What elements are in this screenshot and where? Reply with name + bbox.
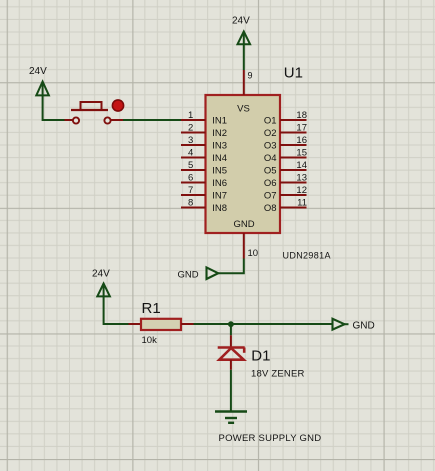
svg-text:15: 15 [296, 148, 307, 159]
zener diode D1 anode pin [230, 360, 232, 370]
svg-text:4: 4 [188, 148, 193, 159]
svg-text:24V: 24V [92, 269, 110, 280]
svg-text:14: 14 [296, 160, 307, 171]
ground label POWER SUPPLY GND [219, 433, 322, 444]
zener diode D1 cathode pin [230, 335, 232, 347]
U1 pin name O1 [264, 116, 277, 127]
svg-text:O1: O1 [264, 116, 277, 127]
U1 pin 3 stub [181, 144, 206, 146]
svg-text:10: 10 [248, 248, 259, 259]
U1 pin 13 stub [280, 182, 307, 184]
U1 pin name GND [233, 219, 254, 230]
U1 pin number 14 [296, 160, 307, 171]
op IC U1 body [206, 95, 281, 233]
svg-text:GND: GND [353, 321, 375, 332]
svg-text:O4: O4 [264, 153, 277, 164]
power terminal +24V bottom-left arrow symbol [97, 284, 110, 297]
wire from U1 pin 10 down and left to GND terminal [218, 259, 244, 274]
U1 pin number 18 [296, 110, 307, 121]
svg-text:24V: 24V [29, 66, 47, 77]
U1 pin name IN7 [212, 191, 227, 202]
svg-text:IN5: IN5 [212, 166, 227, 177]
svg-text:IN3: IN3 [212, 141, 227, 152]
U1 pin number 16 [296, 135, 307, 146]
D1 reference designator [251, 348, 270, 365]
svg-text:UDN2981A: UDN2981A [283, 251, 331, 261]
svg-text:18V ZENER: 18V ZENER [251, 369, 305, 380]
zener diode D1 cathode bar [218, 348, 245, 353]
svg-text:IN1: IN1 [212, 116, 227, 127]
ground terminal GND (near pin 10) label [178, 270, 199, 281]
U1 pin number 7 [188, 185, 193, 196]
U1 pin number 11 [297, 198, 307, 209]
power terminal +24V top-left arrow symbol [36, 82, 49, 96]
svg-text:5: 5 [188, 160, 193, 171]
svg-text:11: 11 [297, 198, 307, 209]
junction node at R1 / D1 [228, 321, 234, 327]
ground terminal GND (right) label [353, 321, 375, 332]
svg-text:18: 18 [296, 110, 307, 121]
wire from R1 to GND terminal (right) [194, 323, 333, 325]
U1 pin name IN1 [212, 116, 227, 127]
svg-text:U1: U1 [284, 64, 303, 81]
svg-text:POWER SUPPLY GND: POWER SUPPLY GND [219, 433, 322, 444]
U1 pin name IN5 [212, 166, 227, 177]
U1 pin 12 stub [280, 194, 307, 196]
U1 pin name O2 [264, 128, 277, 139]
power terminal +24V top arrow symbol [238, 32, 251, 45]
wire from switch to U1 pin 1 [123, 119, 181, 121]
resistor R1 value label 10k [142, 335, 158, 346]
U1 pin name O7 [264, 191, 277, 202]
D1 value label 18V ZENER [251, 369, 305, 380]
U1 pin 15 stub [280, 157, 307, 159]
U1 pin 9 stub (VS, top) [243, 70, 245, 95]
U1 pin 2 stub [181, 132, 206, 134]
U1 pin name IN2 [212, 128, 227, 139]
U1 pin number 3 [188, 135, 193, 146]
svg-text:16: 16 [296, 135, 307, 146]
U1 pin name O8 [264, 203, 277, 214]
U1 pin 5 stub [181, 169, 206, 171]
U1 pin 11 stub [280, 207, 307, 209]
svg-text:O5: O5 [264, 166, 277, 177]
svg-text:9: 9 [248, 71, 253, 81]
switch SW1 left terminal circle [73, 117, 79, 123]
U1 pin number 2 [188, 123, 193, 134]
U1 pin 6 stub [181, 182, 206, 184]
U1 pin number 10 [248, 248, 259, 259]
switch SW1 right pin [111, 119, 124, 121]
svg-text:IN2: IN2 [212, 128, 227, 139]
power terminal +24V top label [232, 16, 250, 27]
svg-text:1: 1 [188, 110, 193, 121]
power terminal +24V bottom-left label [92, 269, 110, 280]
U1 pin 4 stub [181, 157, 206, 159]
U1 pin number 5 [188, 160, 193, 171]
svg-text:O3: O3 [264, 141, 277, 152]
U1 pin name O5 [264, 166, 277, 177]
ground symbol POWER SUPPLY GND [215, 412, 247, 423]
U1 pin name IN8 [212, 203, 227, 214]
svg-text:O7: O7 [264, 191, 277, 202]
U1 pin 14 stub [280, 169, 307, 171]
svg-text:GND: GND [178, 270, 199, 281]
wire from D1 anode down to power supply ground [230, 370, 232, 412]
svg-text:6: 6 [188, 173, 193, 184]
svg-text:IN6: IN6 [212, 178, 227, 189]
U1 pin 10 stub (GND, bottom) [243, 233, 245, 259]
switch SW1 button cap [81, 102, 102, 110]
U1 pin number 4 [188, 148, 193, 159]
ground terminal GND (near pin 10) arrow symbol [207, 267, 219, 279]
svg-text:8: 8 [188, 198, 193, 209]
U1 pin 7 stub [181, 194, 206, 196]
switch SW1 right terminal circle [104, 117, 110, 123]
resistor R1 right pin [181, 323, 194, 325]
U1 pin name IN6 [212, 178, 227, 189]
svg-text:IN7: IN7 [212, 191, 227, 202]
svg-text:O8: O8 [264, 203, 277, 214]
U1 pin name O3 [264, 141, 277, 152]
wire from junction down to D1 [230, 324, 232, 335]
svg-text:10k: 10k [142, 335, 158, 346]
svg-text:IN4: IN4 [212, 153, 227, 164]
U1 pin name VS [237, 104, 250, 115]
U1 pin 8 stub [181, 207, 206, 209]
ground terminal GND (right) arrow symbol [333, 319, 349, 330]
U1 pin number 13 [296, 173, 307, 184]
U1 pin 1 stub [181, 119, 206, 121]
svg-text:O2: O2 [264, 128, 277, 139]
wire from bottom 24V terminal down and right to R1 [104, 296, 129, 324]
svg-text:D1: D1 [251, 348, 270, 365]
U1 pin name IN3 [212, 141, 227, 152]
U1 pin 17 stub [280, 132, 307, 134]
U1 pin number 6 [188, 173, 193, 184]
resistor R1 reference designator [142, 300, 161, 317]
resistor R1 body [141, 319, 181, 330]
U1 pin number 17 [296, 123, 307, 134]
wire from 24V terminal down and right to switch [43, 95, 65, 120]
svg-text:IN8: IN8 [212, 203, 227, 214]
U1 pin name O6 [264, 178, 277, 189]
U1 pin number 1 [188, 110, 193, 121]
svg-text:3: 3 [188, 135, 193, 146]
svg-text:O6: O6 [264, 178, 277, 189]
svg-text:R1: R1 [142, 300, 161, 317]
svg-text:24V: 24V [232, 16, 250, 27]
power terminal +24V top-left label [29, 66, 47, 77]
U1 pin number 8 [188, 198, 193, 209]
svg-text:17: 17 [296, 123, 307, 134]
svg-text:VS: VS [237, 104, 250, 115]
U1 pin number 15 [296, 148, 307, 159]
U1 pin name O4 [264, 153, 277, 164]
switch SW1 actuator bar [71, 109, 108, 111]
svg-text:7: 7 [188, 185, 193, 196]
switch SW1 left pin [65, 119, 73, 121]
U1 reference designator [284, 64, 303, 81]
U1 value label UDN2981A [283, 251, 331, 261]
U1 pin number 12 [296, 185, 307, 196]
wire from top 24V terminal to U1 pin 9 [243, 44, 245, 70]
svg-text:2: 2 [188, 123, 193, 134]
U1 pin 16 stub [280, 144, 307, 146]
svg-text:13: 13 [296, 173, 307, 184]
U1 pin number 9 [248, 71, 253, 81]
U1 pin 18 stub [280, 119, 307, 121]
svg-text:12: 12 [296, 185, 307, 196]
U1 pin name IN4 [212, 153, 227, 164]
resistor R1 left pin [129, 323, 142, 325]
switch SW1 red actuation dot [112, 100, 123, 111]
svg-text:GND: GND [233, 219, 254, 230]
zener diode D1 triangle [219, 348, 243, 360]
